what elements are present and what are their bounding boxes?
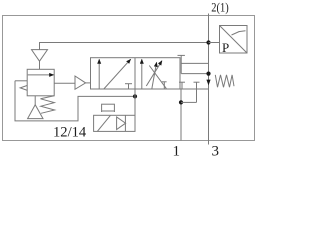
wire vent stem (39, 61, 41, 69)
valve left diagonal arrow (104, 59, 131, 89)
valve throttle arrow 2 (152, 62, 157, 89)
main valve body (91, 58, 181, 89)
regulator relief triangle (28, 105, 43, 119)
node junction top (206, 40, 210, 44)
pilot section bottom rail (180, 88, 209, 90)
svg-text:P: P (222, 40, 229, 55)
regulator relief arrowhead (20, 85, 27, 90)
wire pilot drop (134, 96, 136, 131)
vent triangle (32, 50, 48, 62)
wire port 2(1) vertical (208, 14, 210, 145)
node junction pilot (133, 94, 137, 98)
svg-text:1: 1 (173, 144, 181, 158)
wire port1 to riser (181, 101, 197, 103)
pressure switch contact glyph (232, 32, 240, 36)
label port 1 (173, 144, 181, 160)
node junction port 1 (179, 100, 183, 104)
regulator spring (41, 96, 55, 114)
pilot section blocked stub 2 (196, 82, 198, 89)
regulator flow arrow (28, 74, 54, 76)
label port 3 (212, 144, 220, 160)
label 12/14 (53, 124, 87, 140)
pilot section capped port top (178, 54, 185, 56)
valve left arrow (98, 59, 100, 89)
pressure switch P label (222, 40, 229, 55)
svg-text:3: 3 (212, 144, 220, 158)
solenoid coil diagonal (97, 115, 110, 131)
pressure switch diagonal (220, 26, 248, 54)
solenoid manual override (102, 104, 115, 111)
regulator body (27, 69, 54, 96)
valve throttle strike line (149, 66, 166, 89)
valve throttle arrow 1 (146, 61, 162, 86)
enclosure frame (3, 16, 255, 141)
regulator relief stem (34, 96, 36, 105)
solenoid pilot triangle (117, 117, 126, 130)
main valve divider (134, 58, 136, 89)
node junction rail lower (206, 72, 210, 76)
wire feedback loop (15, 81, 135, 121)
wire valve bottom to pilot junction (134, 89, 136, 96)
wire to pressure switch (209, 42, 220, 44)
valve left blocked port (128, 84, 130, 89)
regulator feedback entry (15, 80, 27, 82)
solenoid pilot valve body (94, 115, 135, 131)
wire port 1 drop (180, 89, 182, 141)
svg-text:12/14: 12/14 (53, 124, 87, 140)
pressure switch box (220, 26, 248, 54)
pilot amplifier triangle (75, 76, 86, 89)
pilot section rail upper (181, 62, 208, 64)
pilot section rail lower (181, 73, 208, 75)
flow arrow down port 3 (206, 80, 210, 86)
node 2(1) label (211, 1, 228, 15)
wire pilot to valve (86, 82, 91, 84)
wire pilot supply riser (196, 89, 198, 102)
svg-text:2(1): 2(1) (211, 1, 228, 15)
solenoid divider (124, 115, 126, 131)
valve right arrow (141, 59, 143, 89)
valve right blocked port (163, 82, 165, 89)
pilot section blocked stub 1 (181, 82, 183, 89)
regulator output wire (54, 82, 75, 84)
wire top rail to vent (40, 43, 209, 50)
return spring (215, 75, 234, 87)
